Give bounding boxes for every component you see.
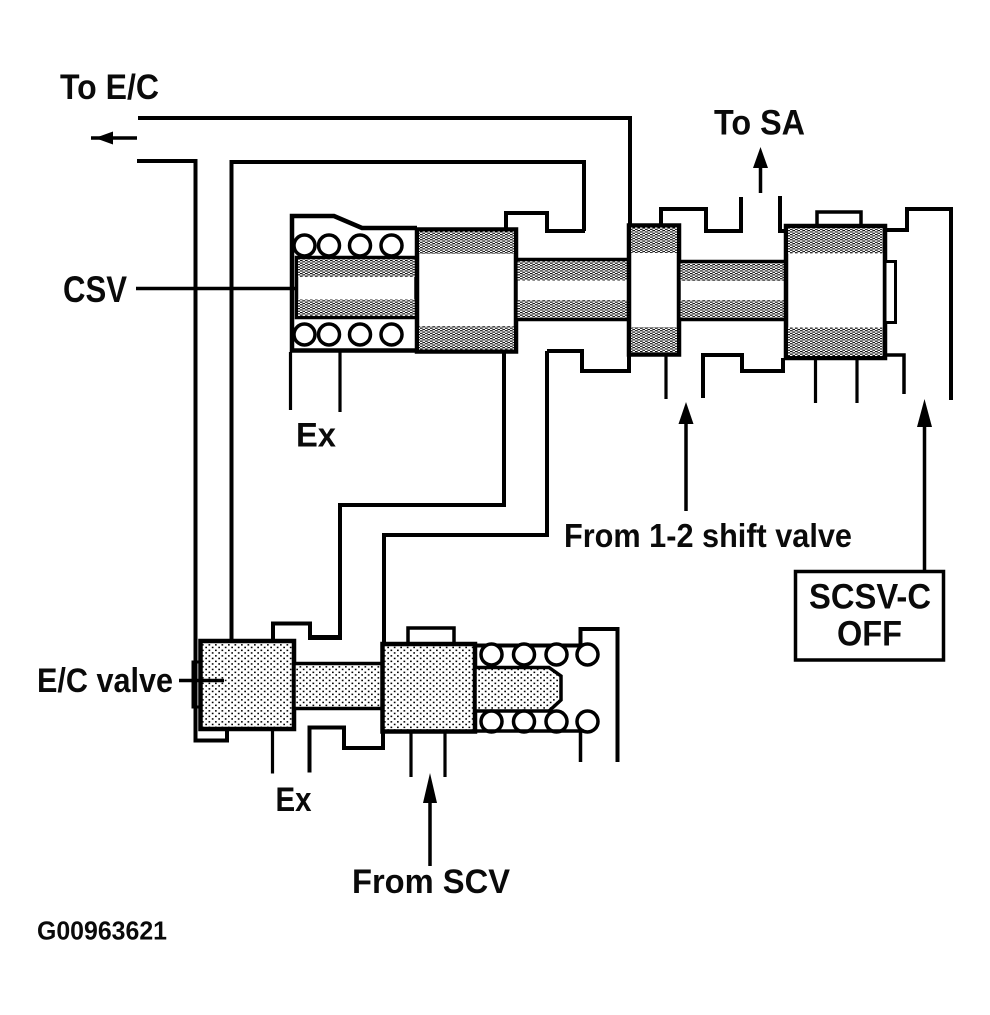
svg-text:CSV: CSV	[63, 269, 127, 310]
CSV land3 top bump	[817, 212, 861, 226]
svg-text:SCSV-C: SCSV-C	[809, 578, 931, 617]
wire land1 port to E/C valve top (stepped)	[273, 353, 504, 641]
svg-text:Ex: Ex	[296, 417, 336, 455]
CSV land 1	[417, 230, 516, 352]
CSV spring bottom coils	[294, 324, 402, 345]
E/C valve left land	[201, 641, 295, 729]
svg-text:E/C valve: E/C valve	[37, 662, 173, 700]
CSV port line below land2	[664, 355, 667, 399]
bore bottom castellation right of From1-2 port	[703, 355, 783, 398]
CSV housing bottom edge	[292, 348, 517, 353]
arrow To SA (up)	[759, 164, 763, 193]
arrow to E/C (left-pointing)	[91, 136, 137, 140]
arrow From 1-2 shift valve (up)	[684, 416, 688, 511]
E/C ports below middle land	[409, 732, 412, 778]
SCSV-C OFF box	[796, 572, 944, 661]
CSV port line below housing left	[289, 352, 292, 410]
wire to E/C (top supply line)	[138, 118, 630, 225]
E/C middle land top bump	[408, 628, 454, 644]
wire bore bottom to E/C valve middle (stepped)	[384, 351, 547, 645]
E/C valve label line	[179, 679, 224, 683]
CSV stem land2-land3	[679, 262, 786, 320]
CSV land 3	[786, 226, 885, 358]
E/C spring housing top edge	[475, 629, 618, 762]
E/C valve middle land	[383, 644, 476, 732]
bore top right of To-SA port	[780, 196, 787, 231]
wire E/C return (left long vertical)	[137, 161, 227, 741]
E/C valve stem	[294, 664, 383, 709]
bore top castellation right of land3 + right wall	[885, 209, 951, 400]
svg-text:From SCV: From SCV	[352, 863, 510, 901]
svg-text:Ex: Ex	[276, 781, 312, 819]
bore bottom castellation right of land1	[547, 351, 629, 371]
bore top castellation over land1	[506, 213, 585, 231]
svg-text:To SA: To SA	[714, 104, 805, 143]
E/C port below left land	[271, 731, 274, 774]
E/C bottom castellation between lands	[310, 728, 384, 773]
E/C spring stem	[475, 668, 561, 712]
E/C valve top castellation	[273, 624, 341, 642]
wire SCSV-C to bore (vertical with up arrow)	[923, 425, 927, 572]
wire from bore to E/C valve (second vertical)	[232, 162, 585, 641]
E/C valve bottom edge under spring	[475, 731, 584, 762]
arrow From SCV (up)	[428, 801, 432, 866]
svg-text:G00963621: G00963621	[37, 916, 167, 946]
E/C spring bottom coils	[481, 711, 598, 732]
CSV spool stem (spring end)	[297, 258, 417, 318]
bore top castellation land2 to To-SA port	[661, 197, 741, 231]
bore bottom right of land3	[885, 355, 904, 394]
CSV port lines below land3	[814, 359, 817, 404]
CSV port line below spring	[338, 350, 341, 412]
CSV spring housing outline	[292, 216, 417, 352]
svg-text:OFF: OFF	[837, 615, 902, 654]
CSV land 2	[629, 226, 679, 355]
CSV land3 right end tab	[885, 262, 896, 323]
CSV stem land1-land2	[516, 260, 629, 320]
E/C spring top coils	[481, 644, 598, 665]
svg-text:To E/C: To E/C	[60, 68, 159, 107]
CSV spring top coils	[294, 235, 402, 256]
CSV label line	[136, 287, 308, 291]
E/C valve left end tab	[193, 662, 201, 707]
svg-text:From 1-2 shift valve: From 1-2 shift valve	[564, 517, 852, 554]
